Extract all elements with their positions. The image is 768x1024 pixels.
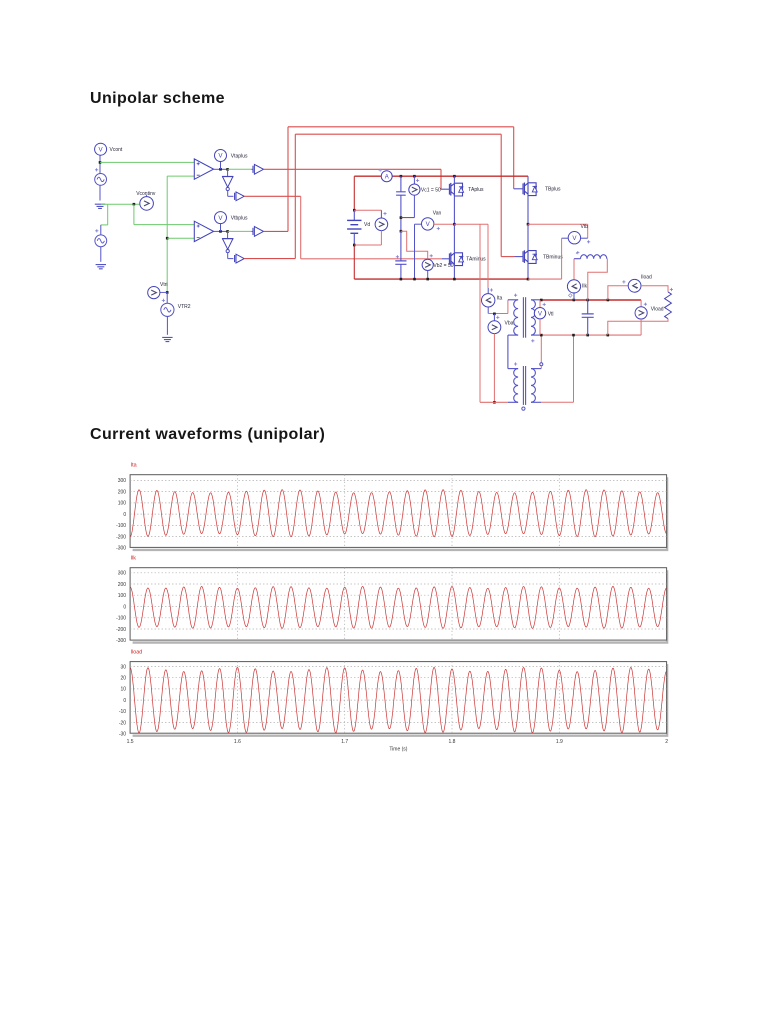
wire down TAplus gate	[440, 169, 442, 189]
svg-text:Vtbplus: Vtbplus	[231, 216, 248, 222]
plus mark ammeter	[379, 169, 382, 172]
waveform trace Iload	[130, 667, 667, 732]
lead TR1 secondary bottom	[531, 334, 541, 336]
plus mark Vload	[644, 303, 647, 306]
wire Vc1 to cap midpoint	[401, 217, 415, 219]
wire Vcont to comp1 plus input	[100, 161, 194, 163]
mark TR2 primary	[514, 362, 517, 365]
plus mark VS2	[95, 229, 98, 232]
wire NA to buffer FA2	[228, 195, 234, 197]
wire to inverter NB	[227, 231, 229, 239]
lead Ltb right	[606, 258, 609, 260]
wire FB2 out	[244, 258, 295, 260]
node link-load	[607, 299, 610, 302]
stem Ita top	[487, 288, 489, 294]
wire down TBplus gate	[513, 127, 515, 189]
current probe Ita	[482, 294, 495, 307]
wire Vcont to source VS1	[99, 155, 101, 174]
stem Vb2 bottom	[427, 270, 429, 279]
svg-text:0: 0	[123, 698, 126, 704]
node CB-a	[219, 230, 222, 233]
stem Vtbplus	[220, 223, 222, 231]
wire CB output	[214, 230, 228, 232]
node link-ilk	[573, 299, 576, 302]
wire Van right to node A	[434, 223, 455, 225]
svg-text:1.7: 1.7	[341, 739, 348, 745]
plus mark VTR2	[162, 299, 165, 302]
port mark TR2	[522, 407, 525, 410]
diamond mark Ilk	[569, 294, 573, 298]
stub buffer FB1	[251, 230, 253, 232]
svg-text:20: 20	[121, 676, 127, 682]
svg-text:Vcont: Vcont	[110, 147, 123, 153]
plus mark VS1	[95, 168, 98, 171]
voltmeter Van	[422, 218, 434, 230]
lead Vtb right	[581, 237, 588, 239]
wire cap midpoint to Vb2	[401, 231, 428, 260]
node link-a	[540, 299, 543, 302]
voltmeter Vtbplus	[215, 212, 227, 224]
wire node A out	[454, 223, 488, 225]
plot box Ita	[133, 477, 668, 550]
wire C1 to C2	[400, 195, 402, 231]
stem Vc1 bottom	[413, 195, 415, 218]
transistor TBplus	[522, 183, 524, 194]
ammeter A1	[381, 171, 392, 182]
lead TR2 secondary top	[531, 368, 541, 370]
drain TBminus	[527, 224, 529, 251]
wire FB1 out	[264, 230, 289, 232]
source VS2	[95, 235, 107, 247]
mark Ltb	[576, 251, 579, 254]
stem Vc1 top	[413, 176, 415, 184]
op-amp comparator CA	[194, 159, 213, 179]
svg-text:0: 0	[123, 512, 126, 518]
transistor TAplus	[448, 184, 450, 195]
stem Vd probe top	[380, 210, 382, 218]
winding TR2 secondary	[531, 369, 535, 403]
node ret-cap	[586, 334, 589, 337]
wire TR1 primary to TR2 primary	[507, 335, 509, 369]
source TBminus to rail	[527, 262, 529, 279]
probe Vtri	[148, 287, 160, 299]
node rail-taminus	[453, 278, 456, 281]
lead TR2 secondary bottom	[531, 401, 541, 403]
wire Van to bottom rail	[414, 224, 416, 279]
wire node B out	[528, 223, 588, 225]
plot box Ilk	[133, 570, 668, 642]
svg-text:Iload: Iload	[641, 274, 652, 280]
svg-text:-200: -200	[116, 534, 126, 540]
buffer FB2	[234, 255, 236, 262]
svg-text:Vtl: Vtl	[548, 311, 554, 317]
wire down to Ita	[487, 224, 489, 288]
svg-text:-300: -300	[116, 546, 126, 552]
waveform trace Ilk	[130, 587, 667, 629]
node rail-van	[413, 278, 416, 281]
wire ground node to Vcontinv	[101, 203, 141, 205]
core TR2 b	[525, 366, 527, 405]
core TR1 b	[525, 297, 527, 338]
stem Vload bottom	[640, 319, 642, 335]
lead TR2 primary top	[508, 368, 518, 370]
mark TR1 primary	[514, 294, 517, 297]
plot box Iload	[133, 664, 668, 736]
stem Vload top	[640, 300, 642, 307]
winding TR2 primary	[514, 369, 518, 403]
svg-text:Vtri: Vtri	[160, 282, 168, 288]
source TBplus to node B	[527, 194, 529, 224]
ground G3	[162, 337, 172, 341]
svg-text:-30: -30	[119, 732, 126, 738]
wire CA output	[214, 168, 228, 170]
wire rail extension to Vtb	[528, 278, 562, 280]
svg-text:2: 2	[665, 739, 668, 745]
transistor TAminus	[448, 253, 450, 264]
probe Vba	[488, 321, 501, 334]
wire return leg	[479, 224, 481, 402]
wire to TBminus gate	[501, 256, 514, 258]
core TR1 a	[522, 297, 524, 338]
node CB-b	[226, 230, 229, 233]
node rail-vc1	[413, 175, 416, 178]
capacitor Cout	[582, 314, 594, 317]
svg-text:200: 200	[118, 582, 127, 588]
svg-text:TBplus: TBplus	[545, 187, 561, 193]
wire NA out	[227, 191, 229, 197]
wire down to TAminus gate row	[300, 196, 302, 258]
capacitor C2	[395, 261, 406, 264]
node rail-vb2	[426, 278, 429, 281]
lead Vtb left	[562, 237, 569, 239]
wire FA2 out	[244, 195, 301, 197]
svg-text:1.9: 1.9	[556, 739, 563, 745]
inverter NA	[222, 176, 233, 178]
plus mark Iload	[622, 280, 625, 283]
svg-text:300: 300	[118, 571, 127, 577]
svg-text:TAplus: TAplus	[468, 187, 484, 193]
svg-text:-20: -20	[119, 720, 126, 726]
node cap-mid1	[400, 216, 403, 219]
stem Cout top	[587, 300, 589, 314]
lead TR1 secondary top	[531, 299, 541, 301]
stem battery bottom	[353, 233, 355, 245]
wire Vd probe return	[354, 244, 381, 246]
buffer FA1	[252, 166, 254, 173]
svg-text:-200: -200	[116, 627, 126, 633]
wire up to top loop	[287, 127, 289, 232]
svg-text:Vd: Vd	[364, 222, 370, 228]
wire top rail right	[392, 175, 528, 177]
source VTR2	[161, 303, 174, 316]
svg-text:Vload: Vload	[651, 307, 664, 313]
plus mark Vc1	[416, 179, 419, 182]
ground G1	[95, 204, 105, 208]
node CA-b	[226, 168, 229, 171]
node rail-TAplus	[453, 175, 456, 178]
wire VS1 to ground	[99, 185, 101, 200]
gate lead TAplus	[441, 188, 449, 190]
wire down to Vtb	[587, 224, 589, 238]
voltmeter Vtaplus	[215, 150, 227, 162]
lead TR1 primary top	[508, 299, 518, 301]
svg-text:Vcontinv: Vcontinv	[136, 191, 156, 197]
waveform trace Ita	[130, 490, 667, 537]
node ret-a	[540, 334, 543, 337]
svg-text:-100: -100	[116, 616, 126, 622]
voltmeter Vtl	[534, 308, 545, 319]
wire C2 to bottom rail	[400, 265, 402, 280]
riser TR2 stub	[540, 366, 542, 369]
riser TR2 secondary bottom	[573, 335, 575, 402]
probe Vb2	[422, 259, 433, 270]
svg-text:100: 100	[118, 593, 127, 599]
wire into C2	[400, 231, 402, 260]
node CA-a	[219, 168, 222, 171]
inverter NB	[222, 238, 233, 240]
wire VS2 to ground	[100, 247, 102, 262]
node rail-tbminus	[527, 278, 530, 281]
winding TR1 primary	[514, 300, 518, 335]
node A1	[133, 203, 136, 206]
probe Vd-meter	[375, 218, 388, 231]
svg-text:TBminus: TBminus	[543, 254, 563, 260]
ground G2	[96, 265, 106, 269]
svg-text:-300: -300	[116, 638, 126, 644]
wire Vtb to rail	[561, 238, 563, 279]
svg-text:Ilk: Ilk	[131, 556, 137, 562]
svg-text:A: A	[385, 174, 389, 180]
wire Iload to Rload	[641, 286, 668, 292]
plus mark Vb2	[430, 254, 433, 257]
probe Vc1	[409, 184, 420, 195]
battery Vd	[347, 219, 361, 221]
wire top loop to TBplus gate	[288, 126, 514, 128]
heading: Unipolar scheme	[90, 90, 225, 108]
core TR2 a	[522, 366, 524, 405]
buffer FA2	[234, 193, 236, 200]
svg-text:0: 0	[123, 604, 126, 610]
svg-text:1.8: 1.8	[449, 739, 456, 745]
node Vba-bot	[493, 401, 496, 404]
node A-phase	[453, 223, 456, 226]
winding Ltb	[581, 255, 607, 259]
svg-text:Ita: Ita	[497, 295, 503, 301]
current probe Iload	[628, 279, 641, 292]
stem Vtaplus	[220, 161, 222, 169]
node rail-c1	[400, 175, 403, 178]
wire to VS2 top	[101, 224, 108, 226]
plus mark Vtb	[587, 240, 590, 243]
node cap-mid2	[400, 230, 403, 233]
node B-phase	[527, 223, 530, 226]
gate lead TAminus	[442, 258, 450, 260]
stem Vba	[493, 314, 495, 321]
buffer FB1	[252, 228, 254, 235]
svg-text:Vtb: Vtb	[581, 224, 589, 230]
wire to comp2 plus input	[134, 224, 194, 226]
source TAminus to rail	[453, 264, 455, 279]
svg-text:Vba: Vba	[505, 321, 514, 327]
lead Ltb left	[574, 258, 581, 260]
stem Ilk bottom	[573, 292, 575, 300]
wire VTR2 to ground	[166, 316, 168, 334]
svg-text:30: 30	[121, 664, 127, 670]
wire Ltb to Ilk	[573, 259, 575, 281]
plus mark Vba	[496, 316, 499, 319]
resistor Rload	[665, 292, 672, 319]
node Vba-top	[493, 313, 496, 316]
node Vcont-out	[99, 161, 102, 164]
lead TR2 primary bottom	[508, 401, 518, 403]
wire down to comp2	[133, 204, 135, 224]
wire up to TR1 primary	[507, 300, 509, 314]
svg-text:Ilk: Ilk	[582, 284, 588, 290]
wire Vd top	[353, 176, 355, 210]
drain TAplus	[453, 176, 455, 184]
stem battery top	[353, 210, 355, 220]
mark Van plus	[437, 227, 440, 230]
svg-text:1.6: 1.6	[234, 739, 241, 745]
gate lead TBplus	[514, 188, 523, 190]
op-amp comparator CB	[194, 221, 213, 241]
voltmeter Vcont	[95, 143, 107, 155]
svg-text:-: -	[576, 251, 578, 257]
stub Vcontinv	[146, 195, 148, 198]
heading: Current waveforms (unipolar)	[90, 426, 325, 444]
transistor TBminus	[522, 251, 524, 262]
plus mark C2	[396, 255, 399, 258]
lead TR1 primary bottom	[508, 334, 518, 336]
probe Vload	[635, 307, 647, 319]
wire Ita to TR1	[488, 313, 508, 315]
node rail-c2	[400, 278, 403, 281]
stem Ita bottom	[487, 307, 489, 314]
plus mark Vd probe	[383, 212, 386, 215]
svg-text:-10: -10	[119, 709, 126, 715]
wire comp2 minus input	[167, 237, 194, 239]
wire Vba to TR2 rail	[493, 334, 495, 403]
wire to Iload	[608, 286, 628, 300]
drain TAminus	[453, 224, 455, 253]
drain TBplus	[527, 176, 529, 183]
wire Vtri vertical	[166, 176, 168, 292]
svg-text:10: 10	[121, 687, 127, 693]
wire CA out to buffer	[228, 168, 252, 170]
node Vd-bot	[353, 244, 356, 247]
wire down TBminus gate	[500, 134, 502, 256]
wire into source VS2	[100, 225, 102, 235]
current probe Ilk	[567, 280, 580, 293]
wire up to second loop	[294, 134, 296, 258]
plus mark Ita	[490, 288, 493, 291]
wire FA1 out to TAplus gate	[264, 168, 442, 170]
node ret-load	[607, 334, 610, 337]
svg-text:300: 300	[118, 478, 127, 484]
wire TR2 bottom rail	[480, 401, 508, 403]
riser TR2 secondary top	[540, 335, 542, 363]
svg-text:Vtaplus: Vtaplus	[231, 154, 248, 160]
svg-text:TAminus: TAminus	[466, 257, 486, 263]
node ret-b	[572, 334, 575, 337]
node Vd-top	[353, 209, 356, 212]
wire return row	[541, 334, 641, 336]
gate lead TBminus	[515, 256, 524, 258]
svg-text:200: 200	[118, 489, 127, 495]
svg-text:Vc1 = 50: Vc1 = 50	[421, 188, 441, 194]
wire NB out	[227, 253, 229, 259]
wire link rail	[541, 299, 641, 301]
wire comp1 minus input	[167, 175, 194, 177]
svg-text:Iload: Iload	[131, 649, 143, 655]
wire Vd bottom	[353, 245, 355, 279]
stem Vtl bottom	[539, 319, 541, 335]
stem Cout bottom	[587, 318, 589, 336]
wire to TAminus gate	[301, 258, 442, 260]
wire Ltb to link rail	[588, 259, 608, 300]
wire jog to source VS2	[107, 204, 109, 225]
wire bottom rail	[354, 278, 528, 280]
wire Rload return	[608, 319, 668, 335]
wire TR2 secondary bottom	[541, 401, 573, 403]
voltmeter Vtb	[568, 232, 580, 244]
svg-text:Time (s): Time (s)	[389, 747, 407, 753]
mark TR1 secondary	[531, 339, 534, 342]
source TAplus to node A	[453, 195, 455, 225]
winding TR1 secondary	[531, 300, 535, 335]
wire CB out to buffer	[228, 230, 252, 232]
plus mark Rload	[670, 288, 673, 291]
wire to capacitor C1	[400, 176, 402, 191]
plus mark Vtl	[543, 303, 546, 306]
node B1	[166, 237, 169, 240]
stem Vtl top	[539, 300, 541, 308]
wire second loop to TBminus gate	[295, 133, 501, 135]
probe Vcontinv	[140, 197, 154, 211]
source VS1	[95, 174, 107, 186]
wire Vd probe top	[354, 209, 381, 211]
wire Vd probe bottom	[380, 231, 382, 245]
stub buffer FA1	[251, 168, 253, 170]
port mark riser	[540, 363, 543, 366]
wire NB to buffer FB2	[228, 258, 234, 260]
stub Vtri probe	[160, 291, 168, 293]
wire to inverter NA	[227, 169, 229, 177]
svg-text:1.5: 1.5	[127, 739, 134, 745]
svg-text:100: 100	[118, 501, 127, 507]
capacitor C1	[396, 192, 406, 195]
svg-text:Ita: Ita	[131, 463, 137, 469]
wire top rail left	[354, 175, 381, 177]
node Vtri	[166, 291, 169, 294]
wire Van left	[415, 223, 422, 225]
svg-text:-100: -100	[116, 523, 126, 529]
svg-text:VTR2: VTR2	[178, 304, 191, 310]
node link-cap	[586, 299, 589, 302]
svg-text:Van: Van	[433, 211, 442, 217]
wire to VTR2	[166, 292, 168, 303]
